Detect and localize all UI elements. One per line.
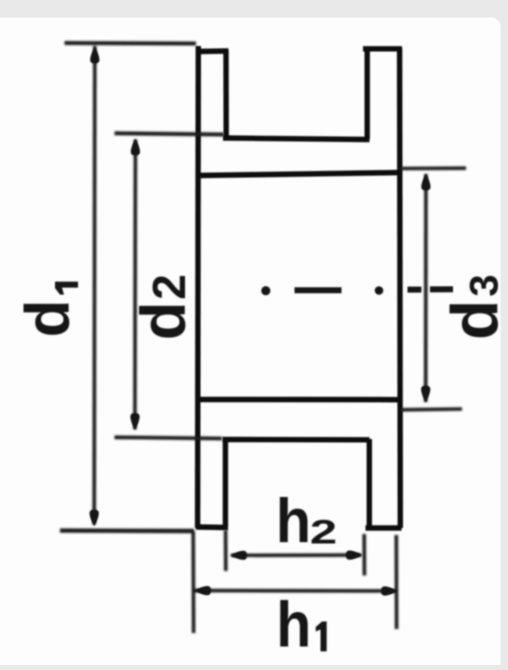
svg-text:d: d — [129, 302, 199, 341]
svg-text:h: h — [276, 486, 311, 556]
svg-text:2: 2 — [143, 274, 195, 300]
svg-text:d: d — [14, 300, 83, 338]
svg-text:3: 3 — [463, 274, 507, 296]
svg-text:d: d — [438, 300, 508, 340]
svg-text:2: 2 — [310, 513, 337, 551]
svg-text:h: h — [276, 589, 311, 660]
